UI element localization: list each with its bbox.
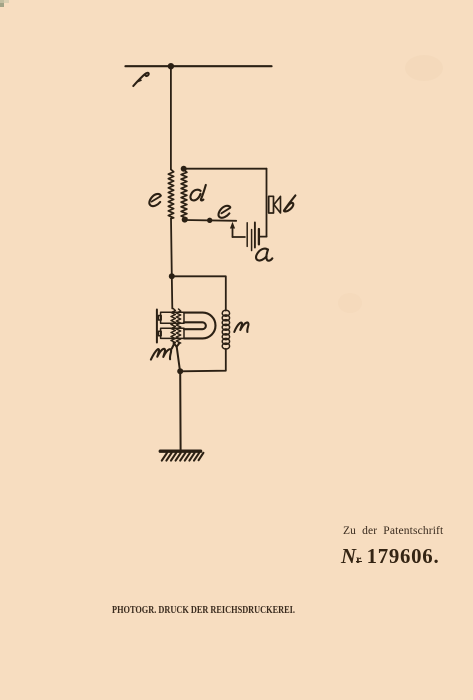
label e	[149, 194, 160, 206]
caption Zu der Patentschrift	[343, 525, 443, 537]
electromagnet m top pole nub	[158, 316, 161, 321]
junction dot upper transformer	[169, 273, 175, 279]
electromagnet m top bobbin	[161, 312, 184, 323]
label a	[256, 249, 268, 261]
wire main vertical above magnet	[171, 276, 174, 308]
wire main vertical mid	[170, 219, 173, 277]
wire n branch bottom	[180, 349, 226, 372]
corner artifact	[0, 0, 4, 7]
wiper arrow stem	[232, 226, 234, 238]
node bottom of d	[182, 217, 188, 223]
wire battery right segment	[259, 236, 266, 238]
winding zigzag 1	[171, 309, 175, 344]
label m prime	[151, 349, 171, 360]
wire node c line	[185, 219, 237, 222]
electromagnet m horseshoe outer	[184, 313, 215, 339]
label b	[284, 195, 295, 211]
node c dot	[207, 218, 212, 223]
resistor d	[181, 170, 187, 219]
electromagnet m bottom pole nub	[158, 331, 161, 336]
winding zigzag 2	[176, 309, 180, 343]
ground hatch	[162, 453, 204, 461]
imprint	[112, 605, 295, 616]
wire battery left segment	[233, 236, 245, 238]
wire receiver branch vertical	[266, 169, 268, 237]
ground bar	[160, 450, 200, 453]
wire n branch top	[172, 276, 226, 310]
winding lead to lower junction	[174, 343, 179, 347]
node f junction dot	[168, 63, 174, 69]
coil n	[222, 310, 229, 349]
label f	[133, 73, 148, 86]
wire main vertical upper	[170, 66, 172, 169]
telephone receiver b body	[269, 196, 274, 213]
antenna top bar	[126, 65, 272, 67]
wiper arrow head	[230, 222, 235, 229]
electromagnet m bottom bobbin	[161, 328, 184, 338]
label d	[190, 190, 200, 201]
numero r underline	[356, 561, 362, 563]
junction dot lower transformer	[177, 368, 183, 374]
node top of d	[181, 166, 187, 172]
wire main vertical lower	[179, 371, 181, 450]
label c	[218, 206, 230, 218]
wire d-top to receiver branch	[184, 168, 267, 170]
battery a plates	[246, 223, 248, 247]
caption patent number	[341, 545, 439, 569]
electromagnet m armature bar	[156, 310, 158, 343]
electromagnet m horseshoe inner	[184, 322, 206, 329]
resistor e	[168, 170, 173, 219]
telephone receiver b horn	[274, 196, 281, 213]
label n	[234, 322, 248, 331]
